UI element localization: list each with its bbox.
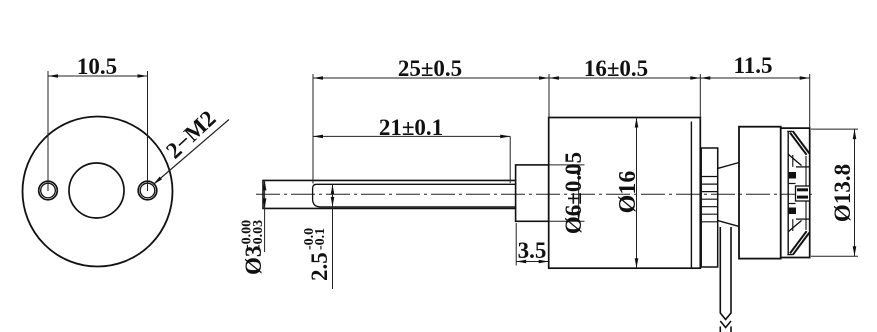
svg-text:25±0.5: 25±0.5 [398,56,462,81]
svg-text:21±0.1: 21±0.1 [379,115,443,140]
svg-text:Ø16: Ø16 [615,171,641,214]
svg-text:3.5: 3.5 [518,238,547,263]
svg-text:-0.03: -0.03 [251,220,266,249]
svg-text:2.5: 2.5 [307,252,332,281]
svg-text:10.5: 10.5 [77,54,117,79]
svg-text:-0.1: -0.1 [313,228,328,250]
svg-text:16±0.5: 16±0.5 [584,56,648,81]
svg-text:Ø3: Ø3 [241,246,266,275]
svg-text:Ø6±0.05: Ø6±0.05 [561,152,586,234]
svg-text:11.5: 11.5 [734,53,773,78]
svg-text:Ø13.8: Ø13.8 [830,164,855,222]
